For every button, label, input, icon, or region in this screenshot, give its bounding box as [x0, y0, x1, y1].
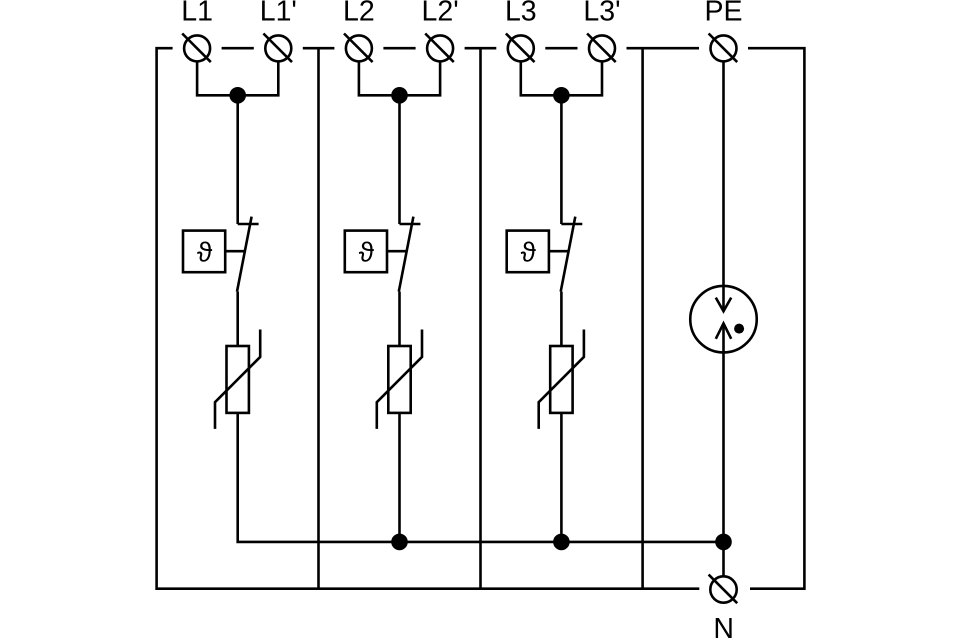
thermal disconnect switch L1: fixed contact bar: [238, 223, 259, 226]
junction: L3 common node: [553, 87, 570, 104]
wire: spark gap lower electrode to bottom bus and N terminal: [722, 323, 725, 576]
terminal L2': [425, 34, 454, 63]
varistor L2: strike: [377, 330, 422, 429]
varistor L3: body: [550, 346, 572, 413]
wire: L1/L1' terminals to common node: [197, 61, 278, 95]
wire: top link L2' to L3: [465, 47, 497, 50]
gas discharge tube: gas-filled indicator dot: [734, 324, 744, 334]
wire: switch to varistor L3: [560, 292, 563, 346]
wire: top link L3' to PE: [627, 47, 700, 50]
thermal sensor box L2: [345, 231, 387, 273]
wire: L3/L3' terminals to common node: [521, 61, 602, 95]
varistor L1: body: [227, 346, 249, 413]
wire: sensor box to blade L3: [549, 250, 569, 253]
section divider 2: [479, 48, 482, 589]
thermal disconnect switch L2: fixed contact bar: [400, 223, 421, 226]
wire: sensor box to blade L2: [387, 250, 407, 253]
terminal L1: [182, 34, 211, 63]
wire: node to thermal switch L1: [236, 95, 239, 224]
svg-text:L1: L1: [181, 0, 213, 27]
section divider 1: [317, 48, 320, 589]
terminal N: [709, 575, 738, 604]
thermal disconnect switch L3: fixed contact bar: [561, 223, 582, 226]
gas discharge tube: upper electrode arrow: [716, 298, 731, 312]
varistor L3: strike: [539, 330, 584, 429]
wire: sensor box to blade L1: [225, 250, 245, 253]
enclosure outline: top-left segment, left edge, bottom edge up to N terminal gap: [157, 48, 700, 589]
wire: switch to varistor L2: [398, 292, 401, 346]
svg-text:L2: L2: [343, 0, 375, 27]
terminal L1': [263, 34, 292, 63]
enclosure outline: top-right segment, right edge, bottom-right segment: [748, 48, 804, 589]
gas discharge tube: lower electrode arrow: [716, 323, 731, 338]
terminal L3': [587, 34, 616, 63]
thermal sensor box L3: [507, 231, 549, 273]
wire: varistor L3 to bottom bus: [560, 413, 563, 542]
thermal disconnect switch L2: blade: [399, 217, 414, 292]
svg-text:ϑ: ϑ: [197, 237, 213, 268]
terminal PE: [709, 34, 738, 63]
svg-text:L3': L3': [583, 0, 620, 27]
svg-text:L3: L3: [505, 0, 537, 27]
wire: node to thermal switch L3: [560, 95, 563, 224]
terminal L3: [506, 34, 535, 63]
thermal sensor box L1: [183, 231, 225, 273]
junction: L1 common node: [229, 87, 246, 104]
terminal L2: [344, 34, 373, 63]
wire: switch to varistor L1: [236, 292, 239, 346]
wire: PE terminal down to spark gap upper electrode: [722, 61, 725, 311]
junction: L2 on bottom bus: [391, 534, 408, 551]
wire: top link L2 to L2': [383, 47, 415, 50]
section divider 3: [641, 48, 644, 589]
svg-text:ϑ: ϑ: [359, 237, 375, 268]
junction: L3 on bottom bus: [553, 534, 570, 551]
gas discharge tube N-PE: envelope: [690, 286, 757, 353]
wire: varistor L1 to bottom bus, bus runs to PE column: [238, 413, 724, 542]
thermal disconnect switch L3: blade: [561, 217, 576, 292]
thermal disconnect switch L1: blade: [237, 217, 252, 292]
wire: top link L1' to L2: [303, 47, 335, 50]
wire: top link L1 to L1': [222, 47, 254, 50]
svg-text:N: N: [713, 613, 734, 640]
varistor L1: strike: [215, 330, 260, 429]
wire: varistor L2 to bottom bus: [398, 413, 401, 542]
wire: L2/L2' terminals to common node: [359, 61, 440, 95]
svg-text:PE: PE: [704, 0, 742, 27]
varistor L2: body: [388, 346, 410, 413]
svg-text:L2': L2': [422, 0, 459, 27]
wire: node to thermal switch L2: [398, 95, 401, 224]
wire: top link L3 to L3': [545, 47, 577, 50]
svg-text:L1': L1': [260, 0, 297, 27]
svg-text:ϑ: ϑ: [521, 237, 537, 268]
junction: PE column on bottom bus: [715, 534, 732, 551]
junction: L2 common node: [391, 87, 408, 104]
